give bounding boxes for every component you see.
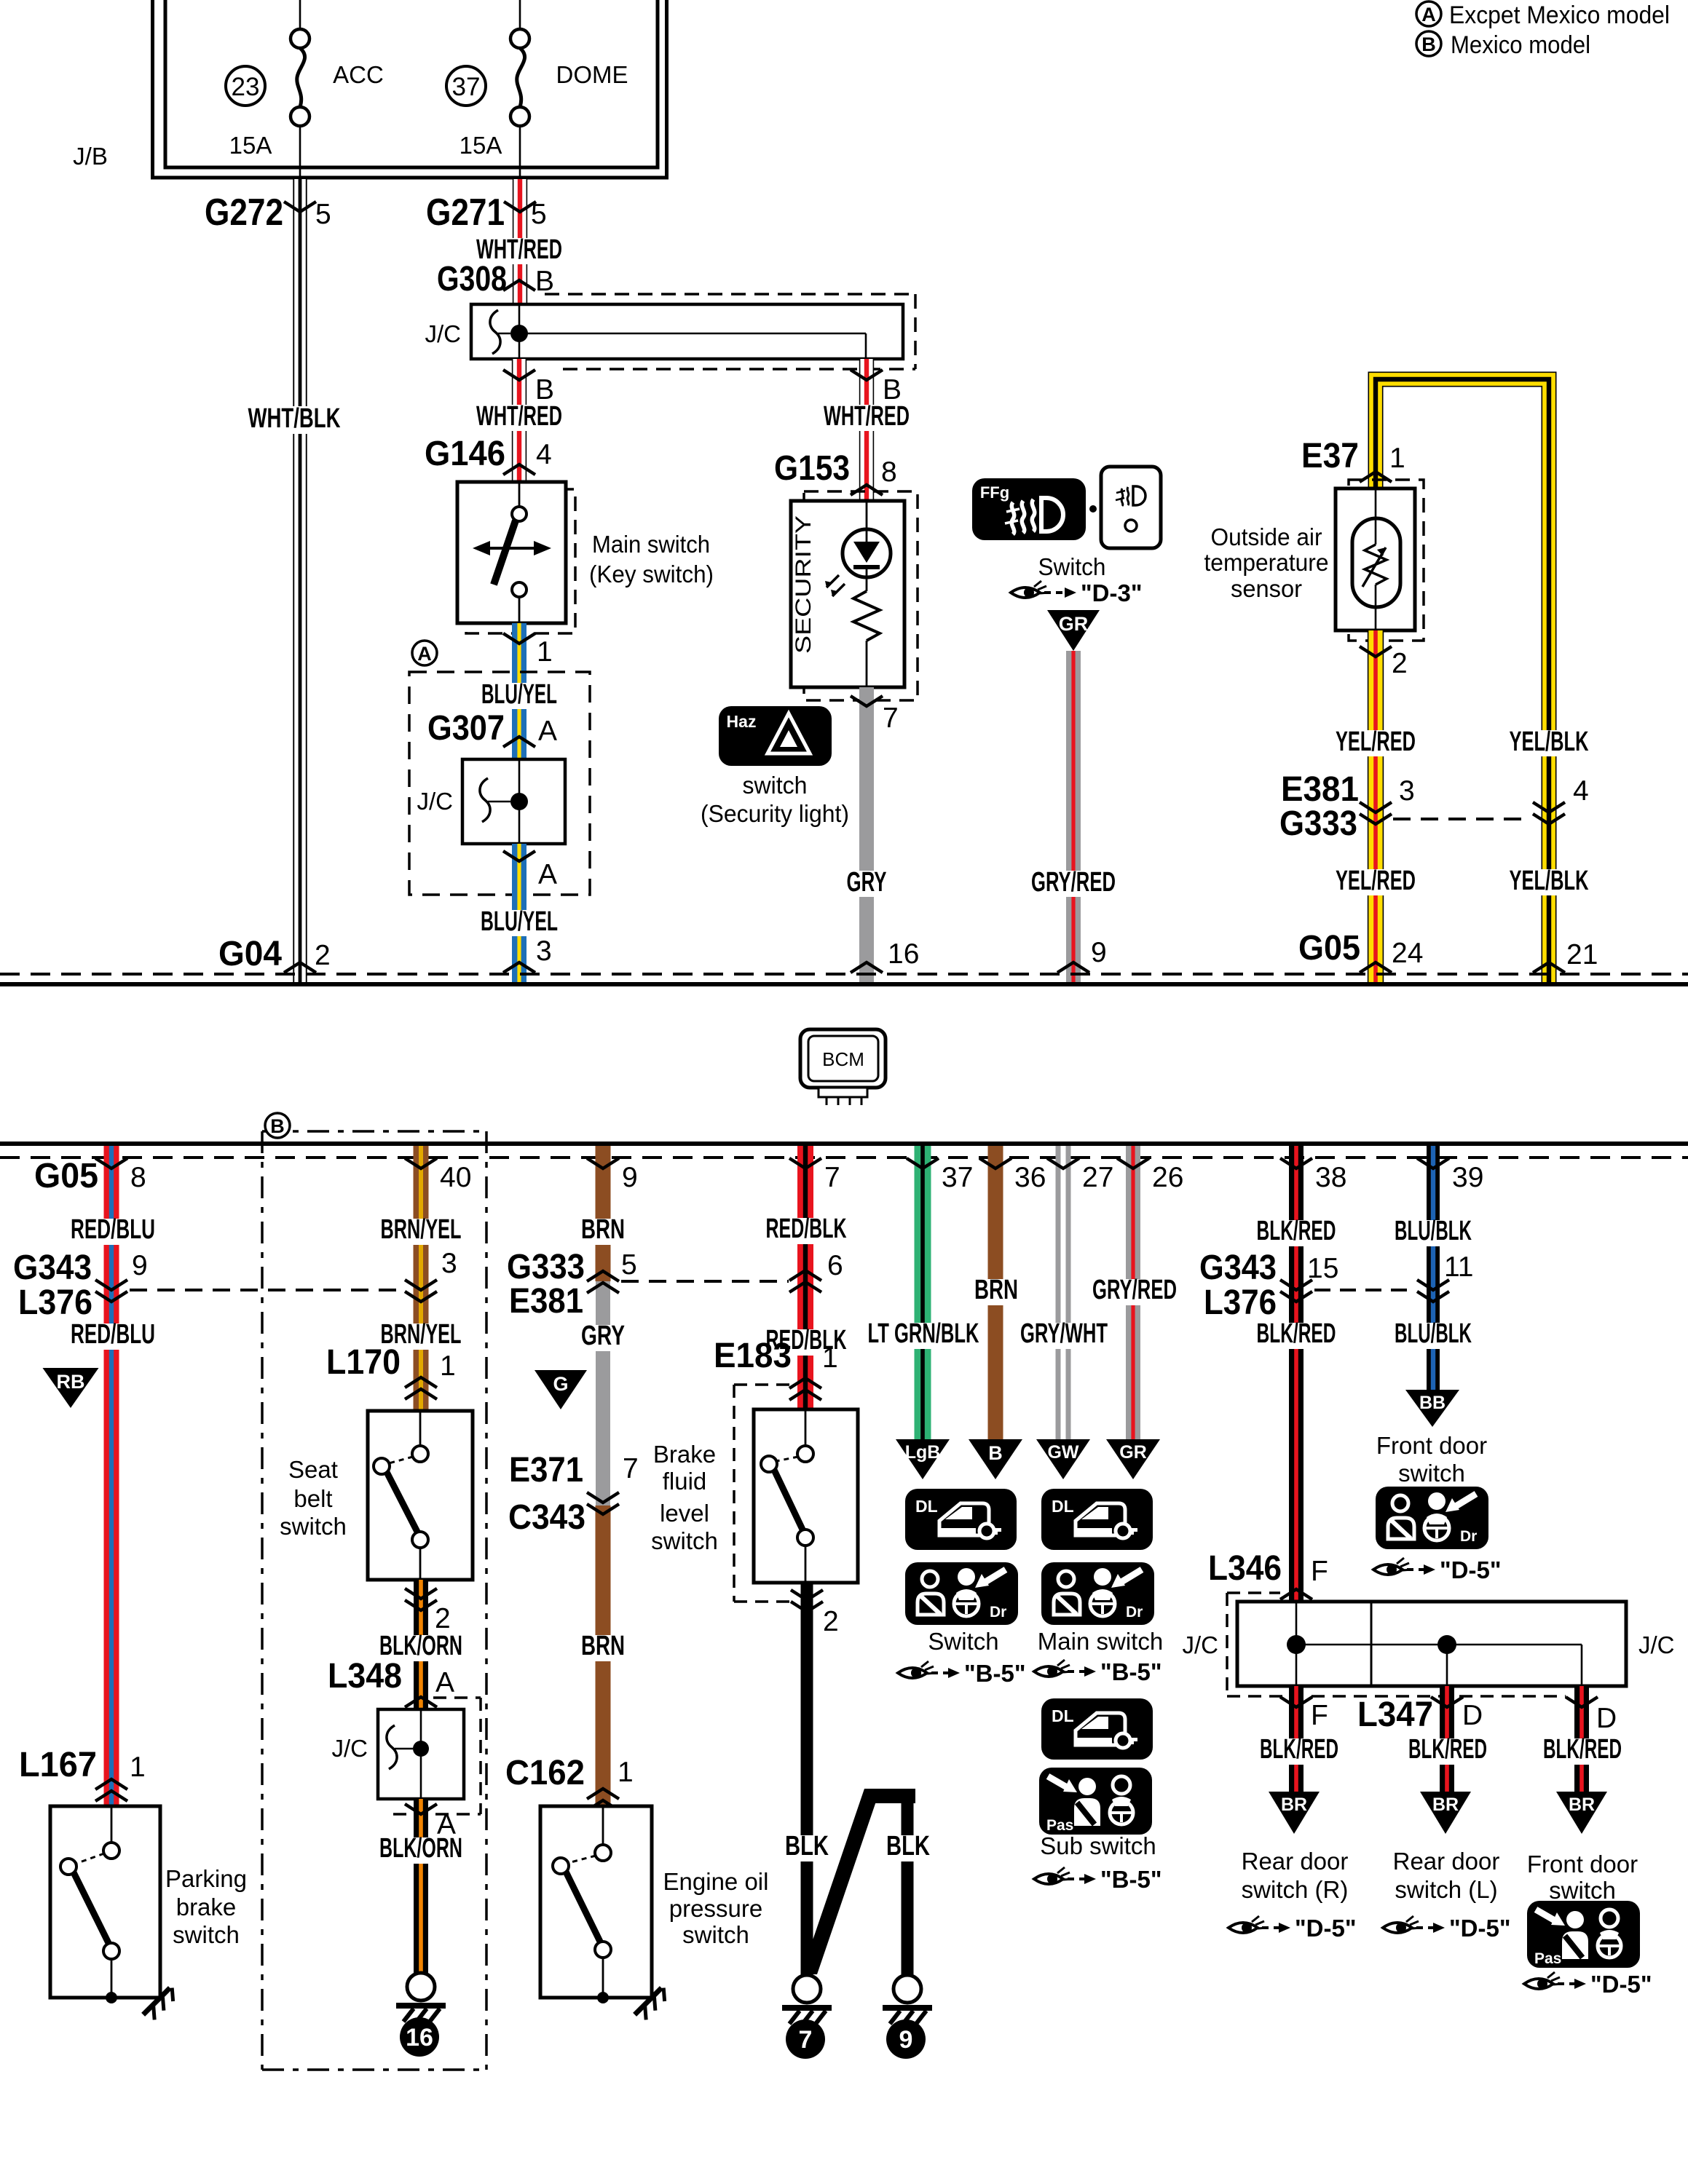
svg-text:7: 7: [824, 1162, 840, 1193]
svg-text:RED/BLU: RED/BLU: [71, 1214, 155, 1245]
ground number 7: [786, 2019, 825, 2059]
svg-text:G: G: [553, 1373, 568, 1395]
top section bus line: [0, 982, 1688, 986]
svg-text:D: D: [1462, 1700, 1483, 1731]
svg-text:YEL/RED: YEL/RED: [1336, 866, 1416, 896]
connector G153 pin 8: [851, 485, 883, 495]
connector pin B below J/C left: [503, 370, 535, 380]
svg-text:E381: E381: [509, 1282, 583, 1321]
bottom bus dashed line: [0, 1156, 1688, 1159]
svg-text:Dr: Dr: [1126, 1604, 1143, 1621]
svg-text:Excpet Mexico model: Excpet Mexico model: [1449, 1, 1670, 29]
wire BRN BCM pin 9 to G333: [596, 1146, 611, 1281]
model circle B: [265, 1113, 290, 1138]
svg-text:11: 11: [1444, 1251, 1474, 1283]
svg-text:9: 9: [132, 1250, 148, 1281]
svg-text:7: 7: [623, 1453, 639, 1484]
svg-text:BLK: BLK: [886, 1831, 930, 1861]
svg-text:L376: L376: [1204, 1283, 1277, 1322]
svg-text:YEL/BLK: YEL/BLK: [1510, 866, 1589, 896]
pin 1 of main switch: [503, 633, 535, 644]
dashed box model A around G307: [409, 672, 590, 895]
wire BRN E371 to C162: [596, 1506, 611, 1806]
junction connector J/C L346: [1237, 1602, 1626, 1686]
parking brake switch box L167: [50, 1806, 160, 1998]
wire WHT/RED from fuse 37 to G308: [513, 179, 527, 304]
svg-text:WHT/BLK: WHT/BLK: [248, 403, 341, 434]
eye reference B-5 left: [898, 1661, 936, 1678]
svg-text:GRY/RED: GRY/RED: [1031, 867, 1116, 898]
wire WHT/RED G308 to main switch G146: [513, 359, 526, 482]
svg-text:27: 27: [1082, 1162, 1113, 1193]
svg-text:DL: DL: [1052, 1497, 1074, 1516]
svg-text:B: B: [988, 1442, 1003, 1464]
svg-text:BRN: BRN: [581, 1631, 625, 1661]
svg-text:16: 16: [406, 2024, 433, 2052]
svg-text:BR: BR: [1569, 1795, 1595, 1815]
triangle GR top section: [1047, 610, 1100, 651]
connector G272 pin 5: [284, 202, 316, 212]
security resistor: [866, 567, 868, 591]
svg-text:A: A: [417, 643, 432, 665]
svg-text:level: level: [660, 1500, 709, 1527]
svg-text:B: B: [535, 266, 554, 297]
svg-text:G333: G333: [507, 1248, 585, 1286]
svg-text:"D-5": "D-5": [1449, 1915, 1510, 1942]
svg-text:4: 4: [536, 439, 552, 470]
svg-text:F: F: [1311, 1700, 1328, 1731]
svg-text:switch: switch: [651, 1527, 718, 1554]
svg-text:BB: BB: [1419, 1393, 1446, 1413]
svg-text:switch: switch: [743, 772, 808, 799]
svg-text:sensor: sensor: [1231, 575, 1302, 602]
ground right: [894, 1975, 921, 2003]
svg-text:SECURITY: SECURITY: [792, 515, 816, 654]
svg-text:DOME: DOME: [556, 61, 628, 88]
wire GRY G333 to E371: [596, 1281, 610, 1506]
svg-text:Sub switch: Sub switch: [1040, 1832, 1156, 1859]
svg-text:G146: G146: [425, 435, 505, 473]
svg-text:belt: belt: [293, 1485, 332, 1512]
wire GRY/WHT BCM pin 27 to GW triangle: [1056, 1146, 1061, 1439]
svg-text:B: B: [270, 1115, 285, 1137]
svg-text:Outside air: Outside air: [1211, 523, 1322, 550]
svg-text:2: 2: [1392, 648, 1408, 679]
svg-text:LgB: LgB: [905, 1442, 941, 1463]
svg-text:21: 21: [1566, 939, 1598, 970]
bus chevron G04 pin 2: [284, 962, 316, 973]
svg-text:switch: switch: [682, 1921, 749, 1948]
svg-text:temperature: temperature: [1204, 549, 1329, 576]
connector G307 pin A: [503, 737, 535, 747]
svg-text:1: 1: [440, 1350, 456, 1382]
svg-text:37: 37: [452, 73, 481, 101]
ground for brake fluid switch: [793, 1975, 821, 2003]
driver switch icon Dr right pair: [1041, 1562, 1154, 1625]
svg-text:16: 16: [888, 938, 919, 970]
driver switch icon Dr left pair: [905, 1562, 1018, 1625]
legend circle A Excpet Mexico model: [1416, 1, 1441, 26]
connector G308 pin B: [503, 280, 535, 290]
svg-text:F: F: [1311, 1556, 1328, 1587]
junction connector J/C G307: [462, 759, 565, 844]
svg-text:G333: G333: [1279, 804, 1357, 843]
svg-text:1: 1: [1389, 443, 1405, 474]
svg-text:brake: brake: [176, 1894, 237, 1920]
svg-text:G153: G153: [774, 449, 850, 488]
svg-text:Engine oil: Engine oil: [663, 1868, 769, 1895]
svg-text:Seat: Seat: [288, 1456, 338, 1483]
svg-text:1: 1: [537, 636, 553, 668]
svg-text:J/C: J/C: [1638, 1631, 1675, 1658]
svg-text:WHT/RED: WHT/RED: [824, 401, 910, 432]
bus chevron pin 9: [1057, 962, 1089, 973]
svg-text:A: A: [538, 859, 557, 890]
fuse 23 ACC 15A: [299, 0, 301, 29]
svg-text:6: 6: [827, 1250, 843, 1281]
pin 7 of security box: [851, 696, 883, 706]
svg-text:37: 37: [942, 1162, 973, 1193]
svg-text:FFg: FFg: [980, 483, 1009, 502]
svg-text:B: B: [883, 374, 902, 405]
wire GRY/RED to G04 pin 9: [1066, 651, 1081, 982]
svg-text:J/C: J/C: [417, 788, 454, 815]
eye reference D-5 rear right: [1228, 1916, 1267, 1933]
svg-text:"D-3": "D-3": [1081, 579, 1142, 606]
svg-text:E37: E37: [1301, 437, 1359, 475]
fuse 37 DOME 15A: [519, 0, 521, 29]
wire BLU/YEL G307 to G04 pin 3: [512, 844, 526, 982]
svg-text:8: 8: [881, 456, 897, 488]
pin 2 of seat belt switch: [405, 1588, 437, 1599]
wire BLK to ground 9: [902, 1796, 914, 1974]
svg-text:26: 26: [1152, 1162, 1183, 1193]
svg-text:GR: GR: [1059, 613, 1089, 635]
svg-text:J/B: J/B: [73, 143, 108, 170]
dashed box around L348: [433, 1696, 481, 1699]
svg-text:2: 2: [435, 1603, 451, 1634]
bus chevron pin 16: [851, 962, 883, 973]
svg-text:GRY: GRY: [581, 1321, 625, 1351]
svg-text:7: 7: [799, 2026, 813, 2054]
connector G146 pin 4: [503, 464, 535, 475]
svg-text:2: 2: [823, 1606, 839, 1637]
svg-text:23: 23: [232, 73, 260, 101]
triangle BR front: [1556, 1792, 1607, 1834]
svg-text:Rear door: Rear door: [1242, 1848, 1349, 1875]
pin A below G307: [503, 851, 535, 861]
svg-text:4: 4: [1573, 775, 1589, 807]
svg-text:G307: G307: [427, 709, 505, 748]
BCM module icon: [800, 1029, 886, 1088]
svg-text:1: 1: [618, 1757, 634, 1788]
svg-text:9: 9: [899, 2026, 913, 2054]
ground number 16: [400, 2017, 439, 2057]
svg-text:Dr: Dr: [990, 1604, 1006, 1621]
eye reference to D-3: [1011, 581, 1049, 598]
bus chevron pin 3: [503, 962, 535, 973]
Haz hazard switch icon: [719, 706, 832, 766]
svg-text:L167: L167: [19, 1746, 97, 1784]
bus pin chevrons and numbers: [95, 1158, 127, 1168]
svg-text:L170: L170: [326, 1343, 401, 1382]
svg-text:GRY/WHT: GRY/WHT: [1020, 1318, 1108, 1349]
wire BRN/YEL BCM pin 40 to seat belt switch: [414, 1146, 429, 1411]
model circle A: [412, 641, 437, 665]
door lock icon DL sub switch: [1041, 1698, 1153, 1760]
svg-text:RED/BLK: RED/BLK: [766, 1214, 847, 1244]
svg-text:ACC: ACC: [333, 61, 384, 88]
svg-text:3: 3: [441, 1248, 457, 1279]
svg-text:3: 3: [1399, 775, 1415, 807]
dot between icons: [1089, 505, 1097, 513]
wire BLU/YEL main switch to G307: [512, 623, 526, 759]
svg-text:Switch: Switch: [928, 1628, 998, 1655]
connector E37 pin 1: [1360, 472, 1392, 482]
svg-text:2: 2: [315, 940, 331, 971]
svg-text:L376: L376: [18, 1283, 92, 1322]
svg-text:36: 36: [1014, 1162, 1046, 1193]
svg-text:RB: RB: [57, 1371, 85, 1393]
svg-text:"D-5": "D-5": [1590, 1971, 1652, 1998]
svg-text:pressure: pressure: [669, 1895, 762, 1922]
svg-text:5: 5: [531, 199, 547, 230]
svg-text:L348: L348: [328, 1657, 402, 1696]
pin A below L348: [405, 1804, 437, 1814]
bus chevron pin 21: [1533, 962, 1565, 973]
svg-text:5: 5: [621, 1249, 637, 1281]
svg-text:L347: L347: [1357, 1696, 1433, 1734]
svg-text:BLU/YEL: BLU/YEL: [481, 906, 558, 937]
svg-text:BRN: BRN: [581, 1214, 625, 1245]
bus chevron pin 24: [1360, 962, 1392, 973]
svg-text:G343: G343: [13, 1249, 92, 1287]
connector G271 pin 5: [504, 202, 536, 212]
junction connector J/C L348: [378, 1709, 464, 1799]
wire BLK/ORN L348 to ground 16: [414, 1799, 428, 1974]
security light box: [804, 491, 918, 700]
svg-text:GR: GR: [1119, 1442, 1147, 1463]
seat belt switch box L170: [368, 1411, 473, 1580]
svg-text:Main switch: Main switch: [592, 531, 710, 558]
svg-text:BLK/RED: BLK/RED: [1260, 1734, 1338, 1765]
Pas passenger icon front door switch: [1527, 1901, 1640, 1968]
svg-text:(Security light): (Security light): [701, 800, 849, 827]
svg-text:switch: switch: [1398, 1460, 1465, 1487]
eye reference D-5 front door bottom: [1524, 1972, 1563, 1989]
svg-text:BRN: BRN: [974, 1275, 1018, 1305]
svg-text:38: 38: [1315, 1162, 1346, 1193]
svg-text:A: A: [538, 716, 557, 747]
svg-text:BR: BR: [1432, 1795, 1459, 1815]
svg-text:Dr: Dr: [1460, 1528, 1477, 1545]
svg-text:"D-5": "D-5": [1295, 1915, 1356, 1942]
wire RED/BLK BCM pin 7 to brake fluid switch E183: [797, 1146, 813, 1409]
svg-text:L346: L346: [1208, 1549, 1282, 1588]
wire LT GRN/BLK BCM pin 37 to LgB: [915, 1146, 931, 1439]
svg-text:15A: 15A: [460, 132, 502, 159]
svg-text:9: 9: [1091, 937, 1107, 968]
main switch (key switch) box: [466, 489, 575, 633]
svg-text:C343: C343: [508, 1498, 585, 1537]
wire GRY security to G04 pin 16: [859, 687, 874, 982]
svg-text:"B-5": "B-5": [1100, 1658, 1162, 1685]
svg-text:GRY/RED: GRY/RED: [1092, 1275, 1177, 1305]
svg-text:G05: G05: [34, 1157, 98, 1195]
svg-text:9: 9: [622, 1162, 638, 1193]
eye reference D-5 rear left: [1383, 1916, 1421, 1933]
triangle RB: [43, 1368, 99, 1408]
svg-text:GW: GW: [1047, 1442, 1078, 1463]
svg-text:D: D: [1596, 1703, 1617, 1734]
svg-text:24: 24: [1392, 938, 1423, 969]
svg-text:"B-5": "B-5": [1100, 1866, 1162, 1893]
svg-text:BR: BR: [1281, 1795, 1307, 1815]
svg-text:Pas: Pas: [1534, 1950, 1561, 1967]
svg-text:switch: switch: [173, 1921, 240, 1948]
svg-text:G271: G271: [426, 191, 505, 234]
svg-text:8: 8: [130, 1162, 146, 1193]
svg-text:BLK/RED: BLK/RED: [1257, 1216, 1336, 1246]
svg-text:A: A: [435, 1667, 454, 1698]
fog switch icon: [1101, 467, 1161, 548]
wire RED/BLU BCM pin 8 to parking brake switch: [104, 1146, 119, 1806]
eye reference B-5 sub switch: [1034, 1867, 1073, 1884]
eye reference B-5 right: [1034, 1660, 1073, 1677]
pin 2 of E183: [791, 1590, 823, 1600]
svg-text:RED/BLU: RED/BLU: [71, 1319, 155, 1350]
svg-text:1: 1: [822, 1342, 838, 1374]
junction block J/B: [153, 0, 667, 178]
wire BLK E183 to ground 7: [801, 1583, 813, 1974]
svg-text:G04: G04: [218, 935, 282, 973]
svg-text:G308: G308: [437, 260, 507, 298]
Pas passenger icon sub switch: [1039, 1768, 1152, 1835]
bottom section bus line: [0, 1142, 1688, 1146]
wire WHT/BLK from fuse 23 to G04: [293, 179, 307, 982]
driver switch icon Dr front door: [1376, 1487, 1488, 1549]
dashed box around L346 junction: [1227, 1591, 1280, 1594]
svg-text:BRN/YEL: BRN/YEL: [381, 1214, 462, 1245]
security LED: [843, 529, 891, 577]
svg-text:DL: DL: [1052, 1706, 1074, 1725]
svg-text:BLU/YEL: BLU/YEL: [481, 679, 557, 710]
brake fluid level switch box E183: [733, 1385, 735, 1602]
svg-text:WHT/RED: WHT/RED: [476, 401, 562, 432]
pin F below L346: [1280, 1697, 1312, 1707]
svg-text:BCM: BCM: [822, 1048, 864, 1070]
wire YEL/RED E37 to G05 pin 24: [1368, 630, 1384, 982]
engine oil pressure switch box C162: [540, 1806, 652, 1998]
svg-text:YEL/RED: YEL/RED: [1336, 727, 1416, 757]
svg-text:J/C: J/C: [1183, 1631, 1219, 1658]
wire BLK/RED L346 to BR rear door switch R: [1289, 1686, 1304, 1795]
triangle LgB: [896, 1439, 950, 1479]
svg-text:15A: 15A: [229, 132, 272, 159]
svg-text:Mexico model: Mexico model: [1451, 31, 1590, 59]
svg-text:BLK/ORN: BLK/ORN: [379, 1833, 462, 1864]
junction connector J/C G308: [545, 293, 915, 296]
wire BRN BCM pin 36 to B triangle: [988, 1146, 1003, 1439]
svg-text:G05: G05: [1298, 929, 1360, 968]
svg-text:switch: switch: [1549, 1877, 1616, 1904]
svg-text:"D-5": "D-5": [1440, 1556, 1501, 1583]
svg-text:BLU/BLK: BLU/BLK: [1395, 1216, 1472, 1246]
wire BLU/BLK BCM pin 39 to BB triangle: [1427, 1146, 1440, 1390]
svg-text:YEL/BLK: YEL/BLK: [1510, 727, 1589, 757]
svg-text:G343: G343: [1199, 1249, 1277, 1287]
svg-text:switch (L): switch (L): [1395, 1876, 1497, 1903]
wire BLK/RED L346 to BR front door switch: [1574, 1686, 1589, 1795]
svg-text:Rear door: Rear door: [1393, 1848, 1500, 1875]
svg-text:BLU/BLK: BLU/BLK: [1395, 1318, 1472, 1349]
svg-text:switch (R): switch (R): [1242, 1876, 1349, 1903]
svg-text:B: B: [535, 374, 554, 405]
svg-text:B: B: [1421, 33, 1436, 55]
triangle GR: [1106, 1439, 1160, 1479]
svg-text:40: 40: [440, 1162, 471, 1193]
svg-text:J/C: J/C: [425, 320, 462, 347]
wire BLK/RED L346 to BR rear door switch L: [1440, 1686, 1454, 1795]
svg-text:Parking: Parking: [165, 1865, 247, 1892]
svg-text:Switch: Switch: [1038, 553, 1106, 580]
svg-text:Main switch: Main switch: [1038, 1628, 1163, 1655]
connector pin B below J/C right: [851, 370, 883, 380]
svg-text:GRY: GRY: [847, 867, 887, 898]
legend circle B Mexico model: [1416, 31, 1441, 56]
svg-text:DL: DL: [915, 1497, 938, 1516]
svg-text:Front door: Front door: [1527, 1851, 1638, 1878]
svg-text:E371: E371: [509, 1451, 583, 1489]
wire BLK/ORN seat belt switch to L348: [414, 1580, 428, 1709]
top section bus dashed line: [0, 973, 1688, 976]
pin 2 of E37: [1360, 646, 1392, 657]
svg-text:39: 39: [1452, 1162, 1483, 1193]
outside air temperature sensor box E37: [1349, 480, 1424, 641]
ground for seat belt circuit: [407, 1973, 435, 2001]
svg-text:fluid: fluid: [663, 1468, 707, 1495]
svg-text:G272: G272: [205, 191, 283, 234]
svg-text:BLK/RED: BLK/RED: [1543, 1734, 1622, 1765]
triangle G: [535, 1370, 587, 1409]
svg-text:BLK/RED: BLK/RED: [1408, 1734, 1487, 1765]
svg-text:Brake: Brake: [653, 1441, 716, 1468]
svg-text:switch: switch: [280, 1513, 347, 1540]
triangle BB: [1405, 1390, 1459, 1427]
svg-text:BLK: BLK: [785, 1831, 829, 1861]
svg-text:3: 3: [536, 935, 552, 967]
svg-text:Pas: Pas: [1046, 1817, 1073, 1834]
wire YEL/BLK loop from E37 pin 1: [1376, 379, 1549, 982]
svg-text:"B-5": "B-5": [964, 1660, 1025, 1687]
svg-text:E183: E183: [714, 1337, 792, 1375]
svg-text:LT GRN/BLK: LT GRN/BLK: [868, 1318, 979, 1349]
svg-text:A: A: [1421, 4, 1436, 25]
svg-text:Front door: Front door: [1376, 1432, 1487, 1459]
triangle BR rear left: [1420, 1792, 1471, 1834]
model B dashed region: [261, 1131, 264, 2070]
triangle GW: [1036, 1439, 1090, 1479]
triangle B: [969, 1439, 1022, 1479]
svg-text:(Key switch): (Key switch): [589, 561, 714, 587]
svg-text:5: 5: [315, 199, 331, 230]
door lock icon DL left pair: [905, 1489, 1017, 1550]
door lock icon DL right pair: [1041, 1489, 1153, 1550]
triangle BR rear right: [1269, 1792, 1320, 1834]
svg-text:C162: C162: [505, 1754, 585, 1792]
wire GRY/RED BCM pin 26 to GR triangle: [1126, 1146, 1140, 1439]
eye reference D-5 front door top: [1373, 1558, 1412, 1575]
